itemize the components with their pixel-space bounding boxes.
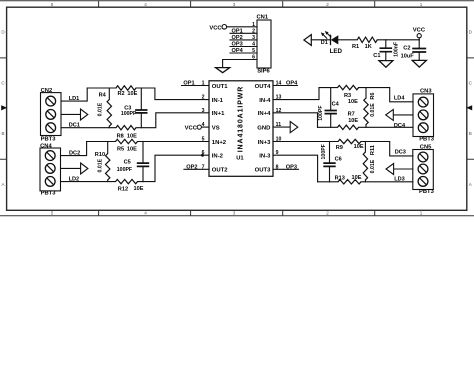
CN2 screw terminals (46, 96, 56, 106)
ground below C1 (379, 61, 393, 68)
svg-text:10E: 10E (354, 144, 364, 150)
svg-text:C5: C5 (124, 159, 131, 165)
svg-text:IN+4: IN+4 (258, 111, 271, 117)
svg-text:OP1: OP1 (183, 81, 194, 87)
resistor R4 0.01E shunt (108, 88, 110, 100)
wire arrow to LED (311, 39, 330, 41)
resistor R13 10E (338, 180, 361, 184)
svg-text:R5: R5 (117, 147, 124, 153)
wire R3 to LD4 jog (359, 88, 413, 102)
wire U1 pin12 jog down to rail (273, 113, 318, 128)
connector CN1 SIP6 (257, 20, 271, 68)
svg-text:10E: 10E (127, 147, 137, 153)
svg-text:LD4: LD4 (394, 95, 405, 101)
resistor R5 10E (116, 139, 138, 143)
svg-text:100nF: 100nF (394, 42, 400, 57)
svg-text:1N+2: 1N+2 (212, 140, 227, 146)
wire R13 to LD3 (361, 181, 413, 183)
svg-text:B: B (469, 131, 472, 136)
resistor R8 10E (116, 126, 136, 130)
svg-text:OUT3: OUT3 (255, 168, 271, 174)
power VCC at CN1 pin 1 (222, 25, 227, 30)
wire U1 pin7 stub (184, 168, 209, 170)
svg-text:R13: R13 (335, 175, 345, 181)
connector CN2 PBT3 (41, 93, 62, 136)
wire CN1 pin2 stub (230, 32, 257, 34)
wire U1 pin14 stub (273, 85, 298, 87)
svg-text:IN+1: IN+1 (212, 111, 225, 117)
svg-text:4: 4 (144, 2, 147, 7)
wire U1 pin9 jog down to rail (273, 155, 318, 182)
CN3 screw terminals (418, 97, 428, 107)
svg-text:1: 1 (420, 211, 423, 216)
svg-text:10E: 10E (348, 118, 358, 124)
wire DC2: CN4 pin1 up to rail (61, 142, 87, 156)
capacitor C5 100PF (142, 142, 144, 164)
svg-text:IN-3: IN-3 (259, 154, 271, 160)
input arrow CN2 (81, 109, 88, 120)
wire R8 to pin3 jog (136, 113, 209, 128)
input arrow CN4 (81, 163, 88, 174)
connector CN3 PBT3 (413, 94, 434, 137)
wire rail to R3 (319, 87, 338, 89)
wire CN4 pin2 to arrow (61, 167, 81, 169)
svg-text:5: 5 (51, 211, 54, 216)
svg-text:5: 5 (51, 2, 54, 7)
svg-text:R4: R4 (99, 93, 107, 99)
capacitor C1 100nF (385, 40, 387, 48)
capacitor C3 100PF (140, 88, 142, 110)
svg-text:3: 3 (233, 2, 236, 7)
svg-text:OP4: OP4 (286, 81, 298, 87)
svg-text:10E: 10E (127, 91, 137, 97)
row marker arrow left (1, 105, 7, 110)
svg-text:R11: R11 (370, 145, 376, 155)
capacitor C2 10uF (418, 40, 420, 49)
wire LD2: CN4 pin3 to R12 (61, 181, 116, 183)
output arrow CN5 (386, 164, 394, 175)
svg-text:4: 4 (144, 211, 147, 216)
wire R7 to DC4 (359, 126, 413, 128)
wire U1 pin10 rail to R9 (273, 141, 338, 143)
resistor R10 0.01E shunt (107, 142, 109, 154)
svg-text:LD3: LD3 (394, 177, 405, 183)
wire CN1 pin5 stub (230, 52, 257, 54)
svg-text:CN3: CN3 (420, 89, 432, 95)
CN4 screw terminals (45, 151, 55, 161)
sheet outer top border line (0, 0, 474, 2)
svg-text:R9: R9 (336, 145, 343, 151)
wire CN1 pin1 to VCC (227, 26, 257, 28)
svg-text:3: 3 (233, 211, 236, 216)
wire U1 pin8 stub (273, 168, 298, 170)
resistor R11 0.01E shunt (364, 142, 366, 153)
wire rail to R13 (318, 181, 338, 183)
svg-text:PBT3: PBT3 (419, 189, 435, 195)
output arrow CN3 (386, 109, 394, 120)
connector CN4 PBT3 (40, 148, 61, 191)
svg-text:2: 2 (326, 211, 329, 216)
wire CN1 pin3 stub (230, 39, 257, 41)
svg-text:VS: VS (212, 125, 220, 131)
wire R5 to pin5 (138, 141, 210, 143)
svg-text:OP4: OP4 (232, 48, 244, 54)
CN5 screw terminals (418, 152, 428, 162)
svg-text:100PF: 100PF (121, 111, 136, 117)
svg-text:10E: 10E (352, 175, 362, 181)
svg-text:INA4180A1IPWR: INA4180A1IPWR (238, 86, 245, 153)
svg-text:OP3: OP3 (286, 165, 297, 171)
zone row ticks left (0, 58, 7, 159)
svg-text:0.01E: 0.01E (370, 103, 376, 117)
wire CN5 pin2 to arrow (394, 168, 413, 170)
svg-text:PBT3: PBT3 (41, 190, 57, 196)
off-page arrow GND (pin 11) (290, 122, 298, 133)
svg-text:2: 2 (326, 2, 329, 7)
svg-text:IN-1: IN-1 (212, 98, 224, 104)
wire U1 pin1 stub (182, 85, 210, 87)
svg-text:LED: LED (330, 48, 343, 55)
ground at CN1 pin 6 (216, 68, 230, 73)
svg-text:C4: C4 (332, 102, 340, 108)
wire U1 pin11 to GND arrow (273, 126, 290, 128)
svg-text:B: B (2, 131, 5, 136)
svg-text:R2: R2 (118, 91, 125, 97)
zone column ticks bottom (99, 210, 375, 215)
zone row ticks right (467, 58, 474, 159)
wire CN1 pin6 to ground (223, 60, 257, 68)
svg-text:PBT3: PBT3 (419, 136, 435, 142)
ground below C2 (412, 60, 426, 67)
svg-text:0.01E: 0.01E (97, 102, 103, 116)
svg-text:CN1: CN1 (257, 14, 269, 20)
power VCC (top right) (418, 38, 420, 40)
svg-text:1: 1 (420, 2, 423, 7)
svg-text:OUT2: OUT2 (212, 168, 228, 174)
wire R9 to DC3 jog (361, 142, 413, 156)
connector CN5 PBT3 (413, 150, 434, 190)
wire R1 to VCC node (377, 39, 419, 41)
resistor R2 10E (116, 86, 136, 90)
svg-text:R12: R12 (118, 186, 128, 192)
svg-text:LD1: LD1 (69, 96, 80, 102)
svg-text:R1: R1 (352, 44, 359, 50)
resistor R7 10E (338, 125, 359, 129)
svg-text:LD2: LD2 (69, 177, 80, 183)
svg-text:100PF: 100PF (117, 167, 132, 173)
capacitor C4 100PF (330, 88, 332, 111)
wire DC1: CN2 pin3 to R8 (61, 127, 116, 129)
wire R12 to pin6 jog (138, 155, 210, 181)
svg-text:100PF: 100PF (321, 144, 327, 159)
svg-text:CN2: CN2 (41, 88, 53, 94)
svg-text:DC4: DC4 (394, 123, 406, 129)
wire LD1: CN2 pin1 up to rail (61, 88, 87, 101)
resistor R3 10E (338, 85, 359, 89)
wire CN2 pin2 to arrow (61, 113, 81, 115)
svg-text:SIP6: SIP6 (257, 69, 270, 75)
svg-text:1K: 1K (365, 44, 372, 50)
svg-text:VCC: VCC (413, 27, 426, 33)
power VCC at U1 pin 4 (202, 126, 210, 128)
wire top rail to R2 (87, 87, 116, 89)
junction on U1 pin6 wire (201, 154, 204, 157)
resistor R6 0.01E shunt (365, 88, 367, 98)
svg-text:OP1: OP1 (232, 29, 243, 35)
wire LED to R1 (338, 39, 357, 41)
wire CN3 pin2 to arrow (393, 114, 413, 116)
LED D1 (330, 35, 332, 46)
sheet inner border frame (7, 7, 467, 210)
svg-text:U1: U1 (236, 155, 244, 161)
svg-text:DC2: DC2 (69, 150, 80, 156)
svg-text:CN5: CN5 (420, 144, 432, 150)
resistor R1 1K (357, 37, 377, 42)
svg-text:DC3: DC3 (395, 150, 406, 156)
svg-text:IN-4: IN-4 (259, 98, 271, 104)
svg-text:OUT4: OUT4 (255, 84, 271, 90)
IC U1 INA4180A1IPWR (209, 81, 273, 177)
resistor R9 10E (338, 139, 361, 143)
svg-text:10E: 10E (348, 99, 358, 105)
zone column ticks top (99, 1, 375, 7)
svg-text:OP2: OP2 (232, 35, 243, 41)
svg-text:R3: R3 (344, 93, 351, 99)
svg-text:R6: R6 (370, 93, 376, 100)
svg-text:PBT3: PBT3 (41, 136, 57, 142)
svg-text:OP2: OP2 (186, 165, 197, 171)
svg-text:100PF: 100PF (318, 105, 324, 120)
row marker arrow right (466, 105, 472, 110)
svg-text:C2: C2 (403, 46, 410, 52)
svg-text:C6: C6 (335, 157, 342, 163)
svg-text:R7: R7 (348, 112, 355, 118)
svg-text:OP3: OP3 (232, 42, 243, 48)
svg-text:0.01E: 0.01E (97, 158, 103, 172)
svg-text:IN-2: IN-2 (212, 154, 224, 160)
wire R2 to pin2 jog (136, 88, 209, 100)
svg-text:VCC: VCC (209, 26, 222, 32)
svg-text:10uF: 10uF (401, 53, 415, 59)
svg-text:C1: C1 (373, 53, 380, 59)
resistor R12 10E (116, 179, 138, 183)
svg-text:R10: R10 (95, 152, 105, 158)
svg-text:D1: D1 (321, 40, 328, 46)
svg-text:OUT1: OUT1 (212, 84, 228, 90)
svg-text:DC1: DC1 (69, 122, 80, 128)
svg-text:IN+3: IN+3 (258, 140, 271, 146)
svg-text:10E: 10E (134, 186, 144, 192)
svg-text:VCC: VCC (185, 126, 198, 132)
svg-text:CN4: CN4 (40, 143, 52, 149)
capacitor C6 100PF (329, 142, 331, 164)
wire rail to R5 (87, 141, 116, 143)
svg-text:GND: GND (257, 125, 270, 131)
wire U1 pin13 jog up to rail (273, 88, 319, 100)
svg-text:0.01E: 0.01E (370, 159, 376, 173)
svg-text:R8: R8 (117, 133, 124, 139)
off-page arrow (LED cathode net) (304, 35, 311, 46)
wire CN1 pin4 stub (230, 46, 257, 48)
wire rail to R7 (318, 126, 338, 128)
sheet outer bottom border line (0, 215, 474, 217)
